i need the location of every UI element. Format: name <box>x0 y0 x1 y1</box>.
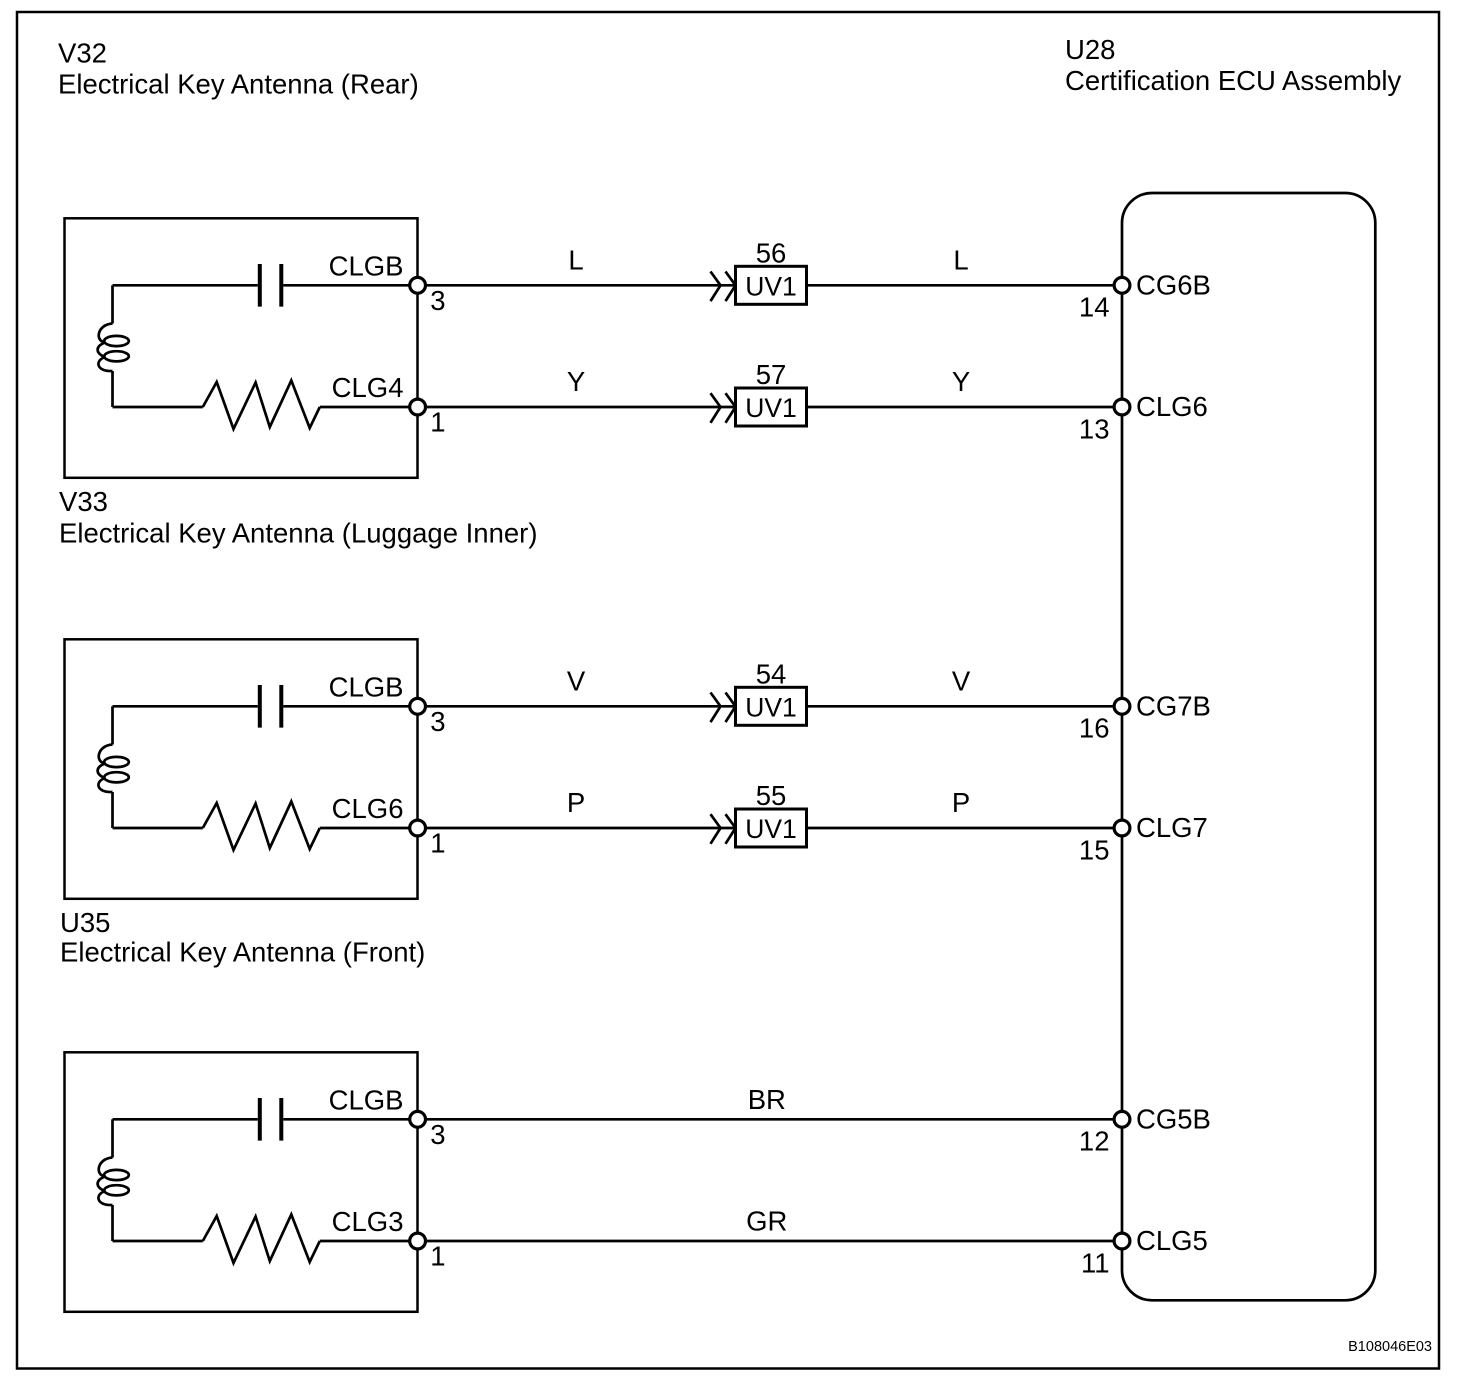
svg-text:Electrical Key Antenna (Front): Electrical Key Antenna (Front) <box>60 937 425 968</box>
svg-text:12: 12 <box>1079 1126 1110 1157</box>
svg-text:1: 1 <box>430 407 445 438</box>
svg-text:CG6B: CG6B <box>1136 269 1211 300</box>
svg-text:1: 1 <box>430 828 445 859</box>
svg-text:V: V <box>567 665 586 696</box>
svg-text:Electrical Key Antenna (Rear): Electrical Key Antenna (Rear) <box>58 69 419 100</box>
svg-text:16: 16 <box>1079 713 1110 744</box>
svg-text:56: 56 <box>756 238 787 269</box>
svg-text:UV1: UV1 <box>745 692 797 722</box>
svg-text:15: 15 <box>1079 834 1110 865</box>
svg-text:UV1: UV1 <box>745 814 797 844</box>
svg-text:CLGB: CLGB <box>329 250 404 281</box>
svg-text:CLG3: CLG3 <box>332 1206 404 1237</box>
svg-text:CLG6: CLG6 <box>1136 391 1208 422</box>
svg-text:3: 3 <box>430 1119 445 1150</box>
svg-text:CLG7: CLG7 <box>1136 812 1208 843</box>
svg-text:V32: V32 <box>58 38 107 69</box>
svg-text:14: 14 <box>1079 292 1110 323</box>
svg-text:Certification ECU Assembly: Certification ECU Assembly <box>1065 65 1401 96</box>
svg-text:U28: U28 <box>1065 34 1115 65</box>
svg-text:L: L <box>953 244 968 275</box>
svg-text:CG5B: CG5B <box>1136 1103 1211 1134</box>
svg-text:13: 13 <box>1079 413 1110 444</box>
svg-text:CLGB: CLGB <box>329 1084 404 1115</box>
svg-text:L: L <box>568 244 583 275</box>
svg-text:3: 3 <box>430 285 445 316</box>
svg-text:UV1: UV1 <box>745 393 797 423</box>
svg-text:CLG4: CLG4 <box>332 372 404 403</box>
svg-text:GR: GR <box>746 1206 787 1237</box>
svg-text:Y: Y <box>567 366 585 397</box>
svg-text:P: P <box>952 787 970 818</box>
svg-text:1: 1 <box>430 1241 445 1272</box>
svg-text:V: V <box>952 665 971 696</box>
svg-text:Y: Y <box>952 366 970 397</box>
svg-text:V33: V33 <box>59 486 108 517</box>
svg-text:P: P <box>567 787 585 818</box>
svg-text:Electrical Key Antenna (Luggag: Electrical Key Antenna (Luggage Inner) <box>59 518 538 549</box>
svg-text:55: 55 <box>756 780 787 811</box>
svg-text:CLGB: CLGB <box>329 671 404 702</box>
svg-text:BR: BR <box>748 1084 786 1115</box>
svg-text:B108046E03: B108046E03 <box>1348 1339 1432 1355</box>
svg-text:3: 3 <box>430 706 445 737</box>
svg-text:54: 54 <box>756 659 787 690</box>
svg-text:11: 11 <box>1081 1247 1110 1278</box>
svg-text:U35: U35 <box>60 907 110 938</box>
svg-text:UV1: UV1 <box>745 271 797 301</box>
svg-text:CG7B: CG7B <box>1136 690 1211 721</box>
svg-text:CLG5: CLG5 <box>1136 1225 1208 1256</box>
svg-text:57: 57 <box>756 359 787 390</box>
svg-text:CLG6: CLG6 <box>332 793 404 824</box>
